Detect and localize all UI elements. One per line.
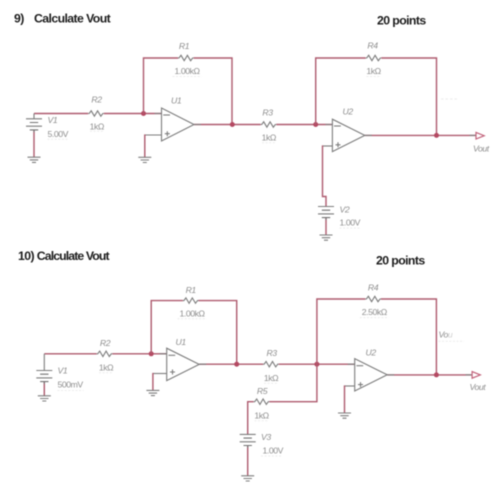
svg-text:1kΩ: 1kΩ	[99, 362, 114, 372]
svg-text:V1: V1	[58, 366, 68, 376]
svg-text:2.50kΩ: 2.50kΩ	[362, 307, 388, 317]
svg-text:R1: R1	[186, 285, 197, 295]
svg-text:R4: R4	[368, 282, 379, 292]
ground (U2 non-inverting input, problem 10)	[338, 413, 351, 418]
ground (below V1)	[28, 157, 41, 162]
svg-text:1.00V: 1.00V	[263, 446, 284, 456]
svg-text:U2: U2	[343, 106, 354, 116]
node: junction at U1 output / R1 feedback	[230, 122, 235, 127]
resistor R1 (problem 10)	[183, 298, 199, 303]
svg-text:1kΩ: 1kΩ	[366, 66, 381, 76]
svg-text:R4: R4	[367, 41, 378, 51]
ground (U1 non-inverting input, problem 10)	[146, 390, 159, 395]
svg-text:V1: V1	[48, 115, 58, 125]
svg-text:Vout: Vout	[473, 144, 490, 154]
svg-text:Vout: Vout	[470, 382, 487, 392]
svg-text:R2: R2	[91, 94, 102, 104]
resistor R2	[88, 111, 104, 116]
svg-text:R3: R3	[262, 107, 273, 117]
battery V2 (1.00V source)	[318, 207, 334, 221]
resistor R3	[261, 122, 277, 127]
wire: V1 bottom to ground (problem 10)	[43, 382, 45, 396]
svg-text:20 points: 20 points	[377, 13, 426, 27]
svg-text:1.00kΩ: 1.00kΩ	[174, 66, 200, 76]
svg-text:1kΩ: 1kΩ	[254, 410, 269, 420]
svg-text:1kΩ: 1kΩ	[90, 122, 105, 132]
battery V1 (5.00V source)	[26, 114, 42, 133]
svg-text:Vou: Vou	[439, 329, 453, 339]
svg-text:Calculate Vout: Calculate Vout	[37, 249, 110, 263]
svg-text:V3: V3	[261, 432, 271, 442]
node: junction at U1 inverting input / R1 feedback (problem 10)	[149, 351, 154, 356]
svg-text:10): 10)	[18, 249, 34, 263]
title: problem 9 heading	[14, 11, 111, 25]
wire: R4 feedback branch (problem 10)	[317, 299, 437, 375]
svg-text:U2: U2	[366, 347, 377, 357]
ground (U1 non-inverting input)	[138, 157, 151, 162]
svg-text:R2: R2	[100, 338, 111, 348]
resistor R4 (problem 10)	[365, 296, 381, 301]
wire: U2 non-inverting input to ground (problem 10)	[345, 385, 355, 387]
wire: V3 bottom to ground	[247, 446, 249, 476]
wire: R2 right to U1 inverting input	[104, 113, 162, 115]
battery V3 (1.00V source, problem 10)	[240, 434, 256, 448]
resistor R2 (problem 10)	[97, 351, 113, 356]
resistor R5 (problem 10)	[254, 399, 270, 404]
svg-text:1.00V: 1.00V	[340, 218, 361, 228]
wire: V1 top to R2 left (problem 10)	[44, 353, 96, 355]
svg-text:1kΩ: 1kΩ	[264, 373, 279, 383]
wire: R3 right to U2 inverting input	[276, 124, 332, 126]
svg-text:U1: U1	[176, 337, 187, 347]
op-amp U1	[155, 108, 202, 141]
svg-text:1kΩ: 1kΩ	[262, 132, 277, 142]
wire: R1 feedback branch (problem 10)	[151, 301, 237, 365]
wire: U2 output to output arrow	[365, 134, 476, 136]
node: junction at U1 inverting input / R1 feedback	[141, 111, 146, 116]
node: junction at U2 inverting input / R4 / R5 (problem 10)	[314, 362, 319, 367]
wire: U1 non-inverting input to ground	[145, 134, 162, 136]
wire: U2 output to arrow (problem 10)	[387, 374, 472, 376]
wire: U2 non-inverting input down to V2	[323, 145, 333, 147]
node: junction at U1 output (problem 10)	[234, 362, 239, 367]
node: junction at U2 output / R4 feedback	[434, 133, 439, 138]
wire: V1 top to R2 left (net A)	[34, 113, 88, 115]
wire: U1 output to R3 left	[194, 124, 261, 126]
svg-text:R5: R5	[257, 386, 268, 396]
wire: R5 left to V3 top (problem 10)	[248, 402, 254, 435]
wire: R3 right to U2 inverting input (problem 10)	[279, 363, 355, 365]
svg-text:500mV: 500mV	[58, 380, 84, 390]
wire (faint remnant mark near R4 right vertical)	[441, 98, 459, 100]
title: problem 10 heading	[18, 249, 110, 263]
svg-text:20 points: 20 points	[376, 253, 425, 267]
wire: U1 output to R3 left (problem 10)	[199, 363, 263, 365]
wire: R5 branch from junction down and left (problem 10)	[269, 364, 317, 402]
wire: R2 right to U1 inverting input (problem 10)	[112, 353, 166, 355]
battery V1 (500mV source, problem 10)	[36, 354, 52, 384]
svg-text:R3: R3	[266, 348, 277, 358]
node: junction at U2 inverting input / R4 feedback	[313, 122, 318, 127]
output arrow Vout (problem 9)	[470, 134, 476, 136]
resistor R3 (problem 10)	[263, 362, 279, 367]
svg-text:5.00V: 5.00V	[48, 129, 69, 139]
op-amp U2 (problem 10)	[348, 359, 395, 391]
svg-text:R1: R1	[179, 41, 190, 51]
ground (below V1, problem 10)	[38, 396, 51, 401]
svg-text:U1: U1	[171, 96, 182, 106]
svg-text:9): 9)	[14, 11, 24, 25]
wire: feedback branch up-over-down through R1	[144, 58, 233, 125]
svg-text:Calculate Vout: Calculate Vout	[34, 11, 111, 25]
ground (below V3)	[241, 476, 254, 481]
wire: R4 feedback branch up-over-down	[316, 58, 437, 135]
resistor R1	[178, 55, 194, 60]
resistor R4	[366, 55, 382, 60]
ground (below V2)	[320, 235, 333, 240]
op-amp U1 (problem 10)	[160, 348, 207, 380]
svg-text:1.00kΩ: 1.00kΩ	[179, 308, 205, 318]
wire: U1 non-inverting input to ground (problem 10)	[153, 373, 167, 375]
op-amp U2	[325, 119, 371, 151]
node: junction at U2 output / R4 (problem 10)	[434, 372, 439, 377]
wire: V2 bottom to ground	[325, 218, 327, 235]
svg-text:V2: V2	[340, 204, 350, 214]
wire: V1 bottom to ground	[33, 130, 35, 157]
output arrow Vout (problem 10)	[466, 374, 473, 376]
